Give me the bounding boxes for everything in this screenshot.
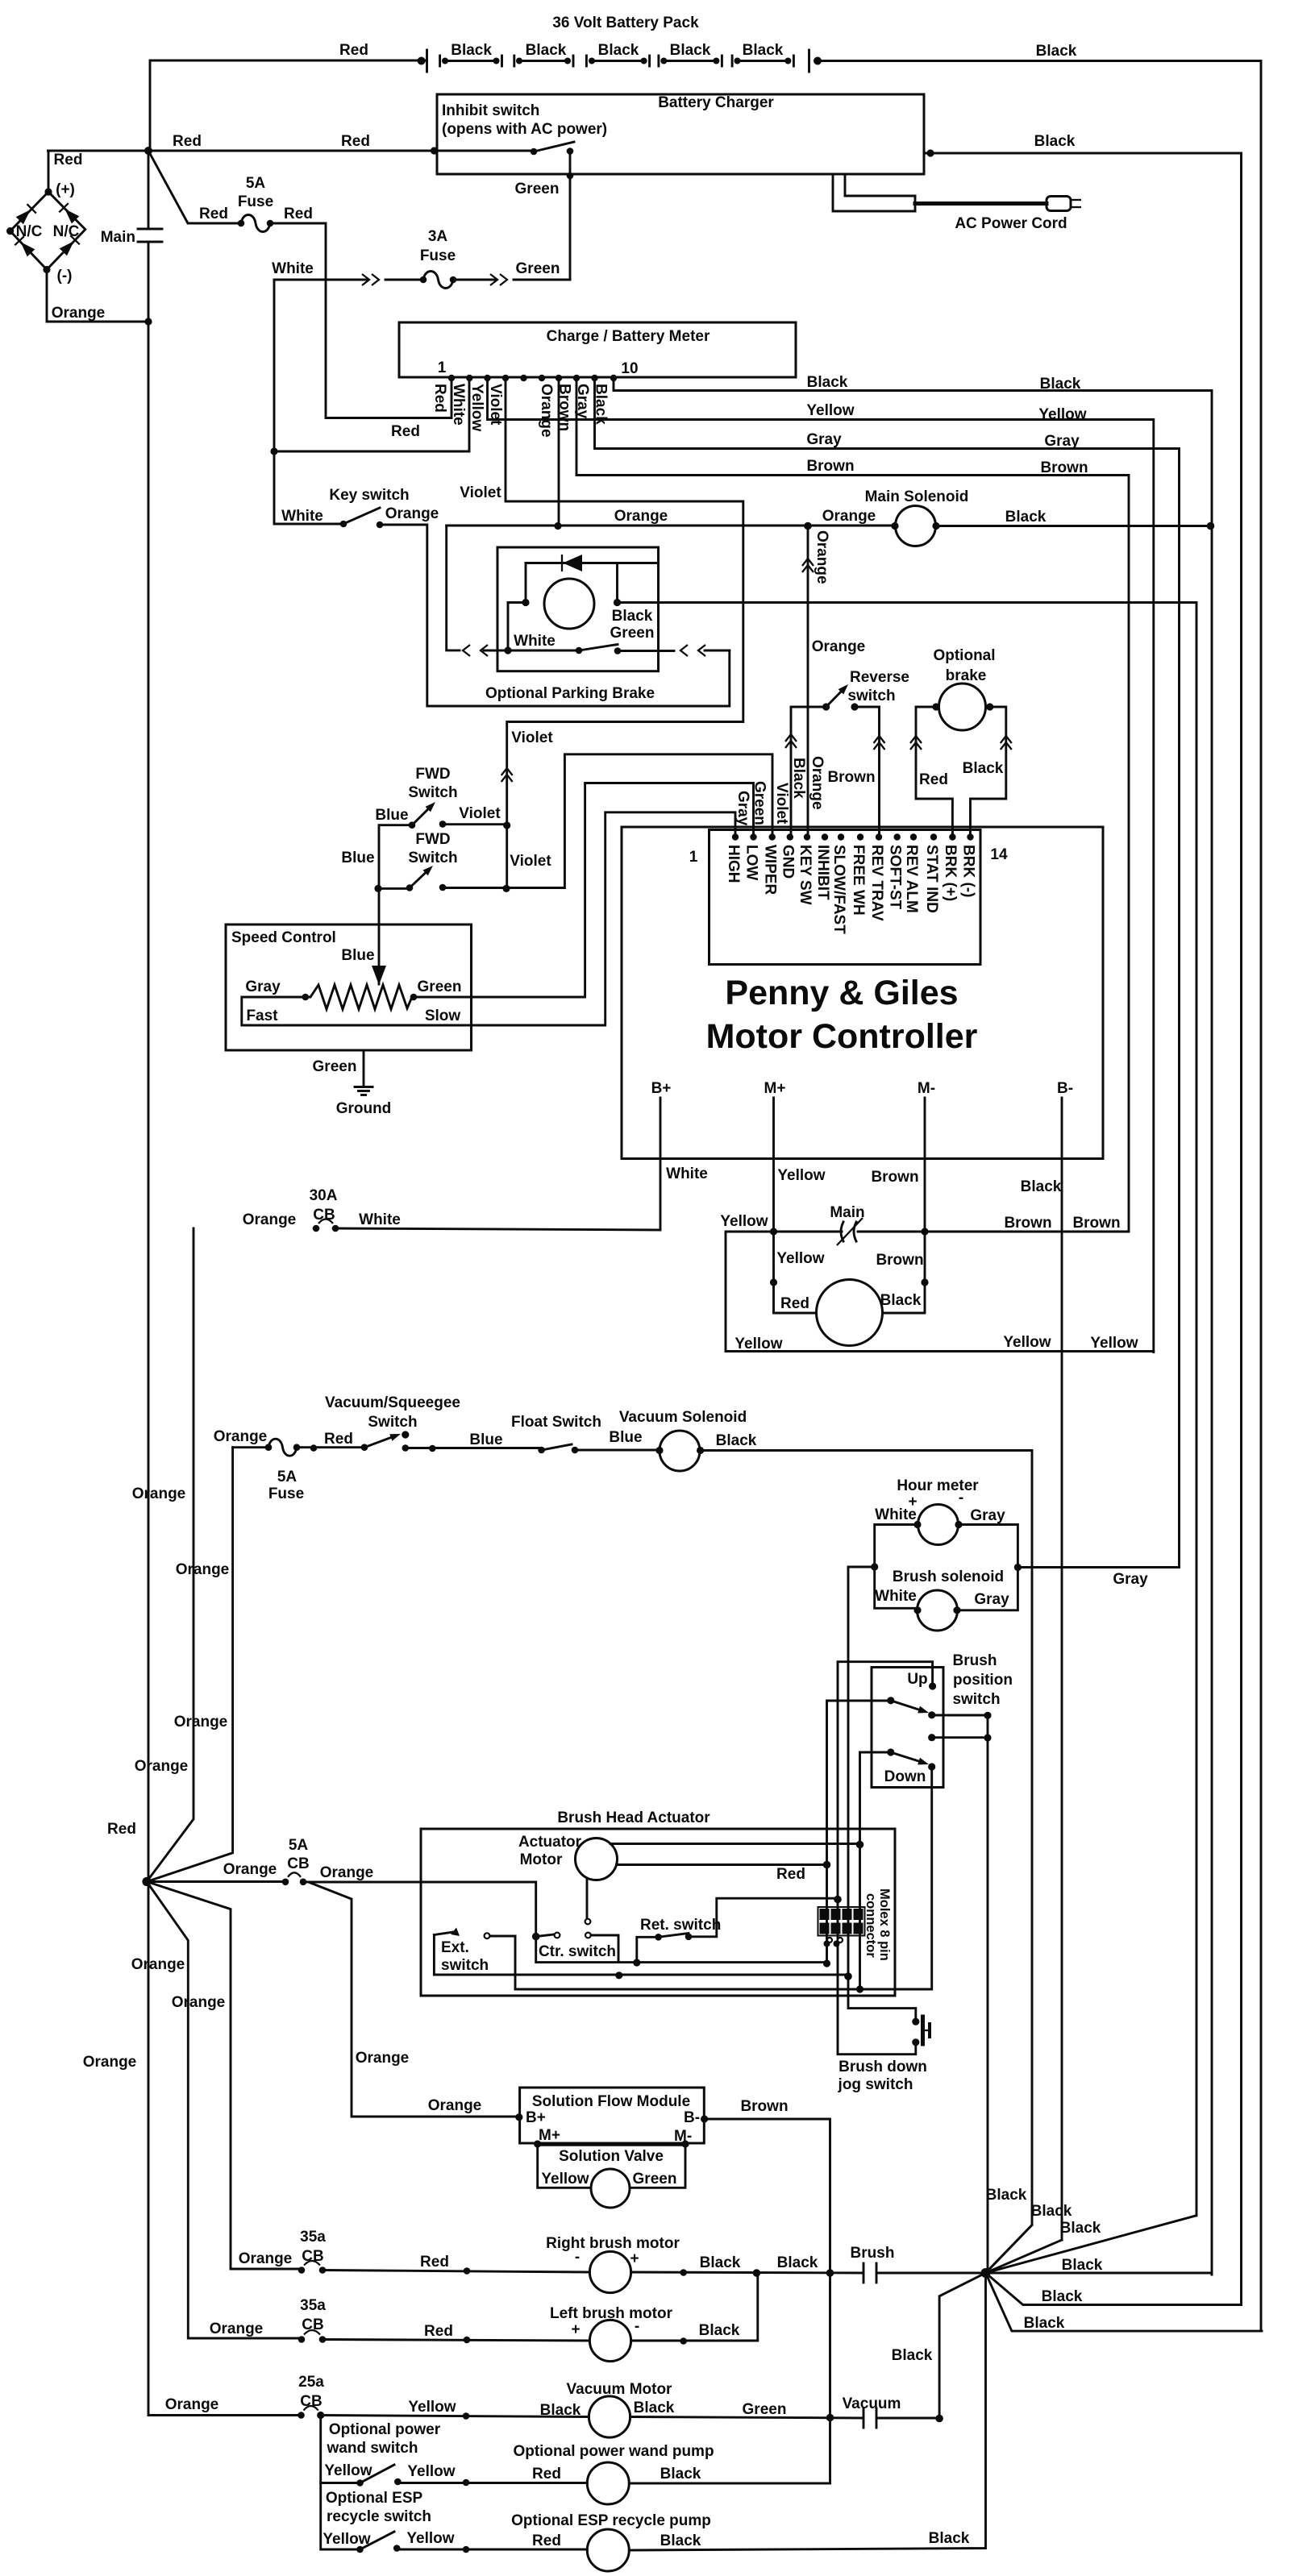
svg-text:Red: Red [199, 206, 228, 222]
connector chevrons (brake black) [1001, 736, 1012, 743]
svg-text:Black: Black [1005, 509, 1047, 526]
battery cells chain [440, 56, 794, 66]
svg-text:Gray: Gray [1113, 1571, 1148, 1588]
svg-text:Gray: Gray [1044, 433, 1080, 450]
svg-text:HIGH: HIGH [725, 845, 742, 883]
motor: brush head actuator motor [576, 1839, 618, 1880]
wire: black from esp pump to hub drop [629, 2273, 985, 2550]
svg-text:Red: Red [107, 1821, 136, 1838]
svg-text:SOFT-ST: SOFT-ST [887, 845, 904, 910]
wire: esp switch to pump [397, 2549, 587, 2551]
junction: solution brown joins [826, 2269, 834, 2277]
wire: red into inhibit switch [435, 150, 535, 152]
svg-text:Black: Black [1040, 376, 1081, 393]
motor: parking brake motor [544, 579, 594, 629]
svg-text:Key switch: Key switch [329, 487, 409, 504]
wire: blue bus joining both FWD switches, down to speed control wiper [379, 825, 412, 984]
wire: black from wand pump to riser [629, 2483, 830, 2485]
switch: vacuum/squeegee switch [364, 1438, 391, 1448]
wire: M+ to main contact [774, 1231, 843, 1233]
svg-text:Brush: Brush [851, 2245, 895, 2262]
svg-text:REV TRAV: REV TRAV [868, 845, 885, 921]
wire: hub to 5A CB [147, 1880, 285, 1883]
wire: hub diagonal to parking brake riser [986, 2216, 1196, 2273]
breaker 25a CB [304, 2406, 318, 2411]
wire: vacuum contact to hub drop [876, 2417, 939, 2420]
svg-text:switch: switch [847, 688, 895, 704]
svg-text:Black: Black [716, 1432, 757, 1449]
wire: red left bus down page to 25a CB corner [148, 151, 150, 2415]
svg-text:36 Volt Battery Pack: 36 Volt Battery Pack [552, 15, 699, 31]
svg-text:recycle switch: recycle switch [327, 2508, 431, 2525]
svg-text:Black: Black [612, 608, 653, 625]
svg-text:INHIBIT: INHIBIT [814, 845, 831, 900]
svg-text:Red: Red [341, 133, 370, 150]
svg-text:Orange: Orange [83, 2054, 137, 2071]
svg-text:Yellow: Yellow [408, 2399, 456, 2416]
meter pins 1-10 [448, 375, 617, 381]
svg-text:Ext.: Ext. [441, 1939, 469, 1956]
wire: wand switch to pump [397, 2482, 587, 2484]
svg-text:Black: Black [1042, 2288, 1083, 2305]
wire: yellow from 25a CB to vacuum motor [321, 2416, 589, 2417]
svg-text:Orange: Orange [174, 1714, 228, 1730]
coil: Main Solenoid [896, 506, 936, 546]
wire: up lower throw to right vertical [932, 1714, 988, 1717]
wire: green from 3A fuse to charger [453, 279, 495, 281]
svg-text:Orange: Orange [52, 305, 106, 322]
ground symbol [355, 1086, 372, 1088]
svg-text:Red: Red [173, 133, 202, 150]
wire: black from charger right edge to right bus, down [924, 153, 1242, 2305]
contact: down upper throw [928, 1734, 935, 1741]
wire: black from vacuum solenoid to right, down to lower hub [701, 1451, 1032, 2274]
wire: brown from solution B- to brush motor return [705, 2119, 830, 2483]
pushbutton: brush down jog switch [912, 2018, 919, 2025]
svg-text:Penny & Giles: Penny & Giles [725, 974, 958, 1012]
switch: Ctr. switch (blade and contacts) [536, 1934, 554, 1937]
coil: brush solenoid [918, 1590, 958, 1631]
switch: inhibit switch blade [534, 142, 574, 152]
svg-text:Black: Black [660, 2532, 701, 2549]
wire: black from left brush motor up to right brush return [631, 2273, 758, 2341]
svg-text:CB: CB [302, 2316, 323, 2333]
svg-text:Blue: Blue [609, 1429, 642, 1446]
box: Penny & Giles Motor Controller [622, 827, 1103, 1159]
svg-text:Ret. switch: Ret. switch [640, 1917, 721, 1934]
svg-text:Molex 8 pin: Molex 8 pin [877, 1888, 892, 1961]
svg-text:Red: Red [420, 2254, 449, 2271]
wire: red from 35a CB2 to left brush motor [322, 2340, 589, 2341]
fuse 3A [423, 272, 453, 289]
junction: hub drop at vacuum line [935, 2415, 943, 2423]
wire: ctr box bottom line to up-blade wire [618, 1961, 827, 1963]
switch: down blade [891, 1752, 919, 1761]
wire: down engaged contact down to ext switch line [515, 1767, 932, 1989]
svg-text:switch: switch [952, 1691, 1000, 1708]
svg-text:Black: Black [1034, 133, 1076, 150]
wire: red from fuse right, down, to meter pin 1 [270, 223, 451, 418]
svg-text:Orange: Orange [132, 1485, 186, 1502]
svg-text:Red: Red [284, 206, 313, 222]
svg-text:Fuse: Fuse [420, 247, 456, 264]
svg-text:Orange: Orange [172, 1994, 226, 2011]
switch: Ret. switch [659, 1934, 689, 1938]
svg-text:Black: Black [790, 758, 807, 799]
wire: orange from bridge (-) to left bus [47, 270, 148, 322]
svg-text:Violet: Violet [460, 484, 501, 501]
junction: orange joins left bus [144, 318, 152, 325]
wire: orange solenoid-side segment with brake plug drop [447, 525, 895, 527]
svg-text:Solution Flow Module: Solution Flow Module [532, 2093, 690, 2110]
svg-text:Black: Black [743, 42, 784, 59]
svg-text:LOW: LOW [743, 845, 759, 880]
svg-text:B+: B+ [526, 2109, 546, 2126]
svg-text:35a: 35a [300, 2297, 326, 2314]
svg-text:STAT IND: STAT IND [923, 845, 940, 913]
svg-text:Solution Valve: Solution Valve [559, 2148, 664, 2165]
svg-text:3A: 3A [428, 228, 448, 245]
svg-text:Green: Green [610, 625, 655, 642]
svg-text:5A: 5A [246, 175, 266, 192]
svg-text:Gray: Gray [734, 791, 751, 826]
svg-text:35a: 35a [300, 2229, 326, 2246]
junction: M- brown node [921, 1228, 928, 1235]
wire: hub right to solenoid black riser [986, 2273, 1213, 2275]
wire: black/green from brake motor right to right bus, down to lower hub [618, 603, 1197, 2216]
svg-text:30A: 30A [310, 1187, 338, 1204]
wire: right vertical down to lower hub [987, 1715, 989, 2273]
wire: hub diagonal to battery black riser [986, 2273, 1263, 2331]
svg-text:Yellow: Yellow [777, 1167, 825, 1184]
svg-text:Black: Black [1062, 2257, 1103, 2274]
motor: optional ESP recycle pump [587, 2529, 629, 2571]
wire: yellow from meter pin 3 to right bus, down to motor loop [488, 378, 1154, 1352]
wire: optional brake left (red) to controller BRK+ [916, 707, 952, 837]
connector chevrons (reverse right) [874, 736, 885, 743]
AC power cord (twin lead from charger bottom) [833, 174, 915, 211]
wire: ext box bottom line to hour-meter rail drop [434, 1974, 848, 1976]
svg-text:wand switch: wand switch [327, 2440, 418, 2457]
svg-text:Blue: Blue [469, 1431, 502, 1448]
svg-text:Ground: Ground [336, 1100, 392, 1117]
wire: black from B- down to lower hub [1061, 1098, 1063, 2240]
svg-text:switch: switch [441, 1957, 489, 1974]
svg-text:BRK (-): BRK (-) [959, 845, 976, 897]
box: brush position switch [872, 1668, 943, 1788]
svg-text:Black: Black [880, 1292, 922, 1309]
svg-text:Violet: Violet [511, 729, 553, 746]
svg-text:Orange: Orange [165, 2396, 219, 2413]
svg-text:Vacuum Motor: Vacuum Motor [567, 2381, 673, 2398]
connector chevrons (violet wire) [501, 768, 513, 775]
wire: diode left leg [525, 563, 527, 603]
svg-text:Orange: Orange [538, 384, 555, 438]
wire: orange feed into actuator (from 5A CB) [303, 1882, 536, 1937]
svg-text:Fuse: Fuse [238, 193, 273, 210]
wire: down upper throw to right vertical [932, 1736, 988, 1739]
wire: FWD1 right to violet drop [443, 823, 507, 825]
svg-text:BRK (+): BRK (+) [942, 845, 959, 901]
svg-text:CB: CB [302, 2248, 323, 2265]
contact: Main contactor tips [841, 1222, 843, 1241]
svg-text:Yellow: Yellow [322, 2531, 370, 2548]
wire: green from speed control box to ground [363, 1050, 365, 1086]
wire: hub diagonal to B- riser [986, 2240, 1063, 2273]
motor: main drive motor [817, 1280, 883, 1346]
svg-text:Reverse: Reverse [850, 669, 909, 686]
wire: black from main solenoid to right black bus [936, 525, 1212, 527]
svg-text:Switch: Switch [368, 1414, 417, 1431]
svg-text:Optional: Optional [933, 647, 995, 664]
wire: red from fuse to switch [297, 1446, 364, 1448]
svg-text:Brown: Brown [740, 2098, 788, 2115]
svg-text:jog switch: jog switch [838, 2076, 913, 2093]
wire: black from right brush motor to brush contact and hub [631, 2272, 863, 2273]
svg-text:Green: Green [418, 978, 462, 995]
wire: left bus corner to 25a CB [148, 2414, 302, 2416]
wire: diode right leg [616, 563, 618, 603]
svg-text:M+: M+ [764, 1080, 786, 1097]
junction: left brush return joins [753, 2269, 761, 2277]
wire: brush contact to lower hub [876, 2272, 986, 2275]
svg-text:White: White [875, 1588, 917, 1605]
connector chevrons (brake plug left) [463, 645, 470, 656]
svg-text:B-: B- [684, 2109, 700, 2126]
svg-text:Red: Red [391, 423, 420, 440]
svg-text:Black: Black [929, 2530, 970, 2547]
svg-text:Red: Red [339, 42, 368, 59]
wire: white from 30A CB to controller B+ [335, 1228, 660, 1230]
wire: green from vacuum motor to vacuum contact [630, 2417, 863, 2419]
junction: orange drop to controller KEY SW [804, 522, 812, 530]
svg-text:Red: Red [776, 1866, 805, 1883]
svg-text:Violet: Violet [510, 853, 551, 870]
wire: white from corner down to key switch; 3A fuse line to charger green [274, 279, 367, 281]
svg-text:Red: Red [919, 771, 948, 788]
wire: green from pot right to controller LOW pin [414, 783, 754, 998]
box: Speed Control [226, 924, 472, 1050]
svg-text:Brown: Brown [806, 458, 854, 475]
svg-text:White: White [450, 384, 467, 426]
svg-text:Slow: Slow [425, 1008, 461, 1024]
svg-text:White: White [272, 260, 314, 277]
wire: white rail tap to ext switch circuit [848, 1567, 875, 1976]
svg-text:Vacuum Solenoid: Vacuum Solenoid [619, 1409, 747, 1426]
svg-text:Optional ESP recycle pump: Optional ESP recycle pump [511, 2512, 711, 2529]
svg-text:FWD: FWD [415, 831, 450, 848]
svg-text:Optional power: Optional power [329, 2421, 441, 2438]
svg-text:Black: Black [660, 2466, 701, 2483]
contact: Vacuum contactor tips [863, 2408, 865, 2428]
junction: orange at meter pin7 drop [554, 522, 561, 530]
svg-text:+: + [571, 2321, 580, 2338]
connector chevrons (brake plug right) [680, 645, 688, 656]
svg-text:Brown: Brown [1004, 1215, 1051, 1232]
junction: brake motor left terminal [522, 599, 529, 606]
switch: Ext. switch blade [434, 1932, 453, 1935]
wire: red from junction diagonally to 5A fuse [148, 151, 241, 223]
breaker 30A CB [318, 1219, 333, 1224]
svg-text:Green: Green [633, 2171, 677, 2188]
svg-text:-: - [575, 2249, 580, 2266]
svg-text:AC Power Cord: AC Power Cord [955, 215, 1067, 232]
svg-text:Yellow: Yellow [806, 402, 854, 419]
svg-text:Main: Main [830, 1204, 864, 1221]
wire: black from meter pin 10 to right bus, down to lower hub [614, 378, 1212, 2275]
connector chevrons (brake red) [910, 736, 922, 743]
junction: ret switch left on ctr line [633, 1959, 640, 1966]
svg-text:Yellow: Yellow [324, 2462, 372, 2479]
svg-text:Brush solenoid: Brush solenoid [893, 1568, 1004, 1585]
junction: brake motor right terminal [614, 599, 621, 606]
junction: brake switch left node [504, 646, 511, 654]
svg-text:Black: Black [892, 2347, 933, 2364]
svg-text:Black: Black [777, 2254, 818, 2271]
connector chevrons (white/green line left) [362, 274, 369, 285]
svg-text:Yellow: Yellow [776, 1250, 824, 1267]
svg-text:Orange: Orange [214, 1428, 268, 1445]
contactor Main (coil bars on left bus) [138, 228, 162, 231]
svg-text:position: position [953, 1672, 1013, 1689]
svg-text:5A: 5A [289, 1837, 309, 1854]
wire: actuator motor bottom lead to ctr switch contact [586, 1880, 589, 1917]
wire: blue float switch to vacuum solenoid [575, 1449, 660, 1452]
svg-text:(opens with AC power): (opens with AC power) [442, 121, 607, 138]
svg-text:25a: 25a [298, 2374, 324, 2391]
wire: actuator motor top lead to down-blade wire [610, 1843, 860, 1845]
box: Brush Head Actuator [421, 1829, 895, 1996]
svg-text:Orange: Orange [210, 2320, 264, 2337]
wire: red battery positive lead along top [150, 60, 427, 151]
svg-text:Motor: Motor [520, 1851, 563, 1868]
svg-text:GND: GND [780, 845, 797, 879]
battery pack last plate [808, 50, 810, 72]
junction: brown/solution riser [826, 2414, 834, 2422]
junction: ret line at up-contact wire [834, 1896, 842, 1904]
wire: white to meter pin 2 [274, 378, 469, 451]
svg-text:Gray: Gray [245, 978, 281, 995]
box: Solution Valve [538, 2144, 591, 2188]
switch: FWD switch 1 [412, 809, 428, 825]
svg-text:Red: Red [780, 1295, 809, 1312]
junction: lower right black hub [981, 2268, 991, 2278]
svg-text:Black: Black [1060, 2220, 1101, 2237]
wire: red from 35a CB to right brush motor [322, 2271, 589, 2273]
svg-text:Violet: Violet [459, 805, 501, 822]
diode (parking brake suppression) [526, 562, 659, 564]
svg-text:N/C: N/C [53, 223, 80, 240]
switch: key switch [343, 508, 380, 524]
svg-text:Brown: Brown [1072, 1215, 1120, 1232]
wire: hub diagonal to vac solenoid riser [986, 2225, 1033, 2274]
box: Ext. switch [433, 1935, 435, 1975]
wire: stub from red wire down to bridge (+) [48, 151, 50, 192]
svg-text:Main Solenoid: Main Solenoid [865, 488, 969, 505]
svg-text:Orange: Orange [814, 530, 830, 584]
svg-text:Right brush motor: Right brush motor [546, 2235, 680, 2252]
svg-text:Yellow: Yellow [407, 2463, 455, 2480]
wire: brown from M- to right bus [925, 1231, 1129, 1233]
switch: up blade [891, 1701, 919, 1710]
wire: orange corner to vac 5A fuse [233, 1446, 268, 1448]
wire: reverse switch right to controller REV TRAV pin [855, 707, 880, 837]
svg-text:Yellow: Yellow [468, 384, 485, 431]
svg-text:Yellow: Yellow [1003, 1334, 1051, 1351]
breaker 35a CB #1 [304, 2261, 320, 2266]
svg-text:-: - [959, 1490, 963, 1506]
svg-text:Orange: Orange [822, 508, 876, 525]
svg-text:Yellow: Yellow [734, 1336, 782, 1352]
diode bridge rectifier (charger receptacle) [6, 188, 85, 273]
breaker 5A CB (actuator) [288, 1872, 301, 1877]
wire: up-contact wire continues down to jog switch [838, 1900, 916, 2055]
svg-text:Motor Controller: Motor Controller [706, 1017, 978, 1056]
wire: main contact to M- [858, 1231, 925, 1233]
wire: orange drop to controller pin 5 [807, 526, 809, 837]
box: Battery Charger [437, 94, 924, 174]
svg-text:CB: CB [300, 2393, 322, 2410]
box: optional parking brake assembly [497, 547, 659, 671]
wire: branch from 5A CB to solution flow module B+ [310, 1883, 519, 2117]
connector: Molex 8 pin (block) [818, 1907, 865, 1936]
wire: up blade common to left [827, 1701, 891, 1963]
junction: brown/black splice [921, 1278, 928, 1286]
svg-text:Orange: Orange [614, 508, 668, 525]
motor: optional power wand pump [587, 2462, 629, 2504]
svg-text:Main: Main [101, 229, 135, 246]
junction: left distribution hub [142, 1877, 151, 1886]
box: Solution Flow Module [520, 2088, 705, 2143]
wire: gray from meter pin 9 to right bus, down to hour meter [595, 378, 1180, 1568]
junction: gray tap [1014, 1564, 1022, 1571]
svg-text:White: White [359, 1211, 401, 1228]
switch: float switch [542, 1444, 572, 1450]
svg-text:Orange: Orange [809, 756, 826, 810]
wire: hub diagonal to 35a CB#2 bus [147, 1882, 302, 2339]
svg-text:Fuse: Fuse [268, 1485, 304, 1502]
wire: ext switch right edge down to down-contact line [514, 1936, 517, 1989]
wire: inhibit switch output down through charger box [569, 152, 572, 280]
svg-text:1: 1 [438, 359, 447, 376]
fuse 5A (charge meter feed) [241, 215, 270, 232]
wire: gray from pot left around to controller HIGH pin [242, 812, 735, 1025]
svg-text:REV ALM: REV ALM [903, 845, 920, 913]
svg-text:Black: Black [634, 2399, 675, 2416]
svg-text:M+: M+ [539, 2127, 560, 2144]
valve: solution valve coil [591, 2169, 630, 2208]
wire: ret switch right to up-contact vertical [689, 1898, 838, 1937]
svg-text:5A: 5A [277, 1469, 298, 1485]
junction: 25a CB output node [317, 2412, 324, 2419]
svg-text:Black: Black [1024, 2315, 1065, 2332]
wire: right rail connecting hour meter and brush solenoid [957, 1525, 1017, 1610]
wire: rail continues to jog switch upper contact [848, 1976, 916, 2021]
svg-text:Black: Black [700, 2254, 741, 2271]
junction: M+ yellow node [770, 1228, 777, 1235]
svg-text:Optional Parking Brake: Optional Parking Brake [485, 685, 655, 702]
svg-text:Brush Head Actuator: Brush Head Actuator [557, 1809, 710, 1826]
svg-text:Orange: Orange [356, 2050, 410, 2067]
svg-text:Brown: Brown [871, 1169, 918, 1186]
svg-text:Red: Red [424, 2323, 453, 2340]
coil: optional brake [939, 683, 986, 730]
wire: red feed from junction to battery charger [48, 150, 435, 152]
svg-text:Black: Black [699, 2322, 740, 2339]
svg-text:Battery Charger: Battery Charger [658, 94, 774, 111]
switch: reverse switch [826, 692, 841, 707]
svg-text:Brown: Brown [1040, 459, 1088, 476]
